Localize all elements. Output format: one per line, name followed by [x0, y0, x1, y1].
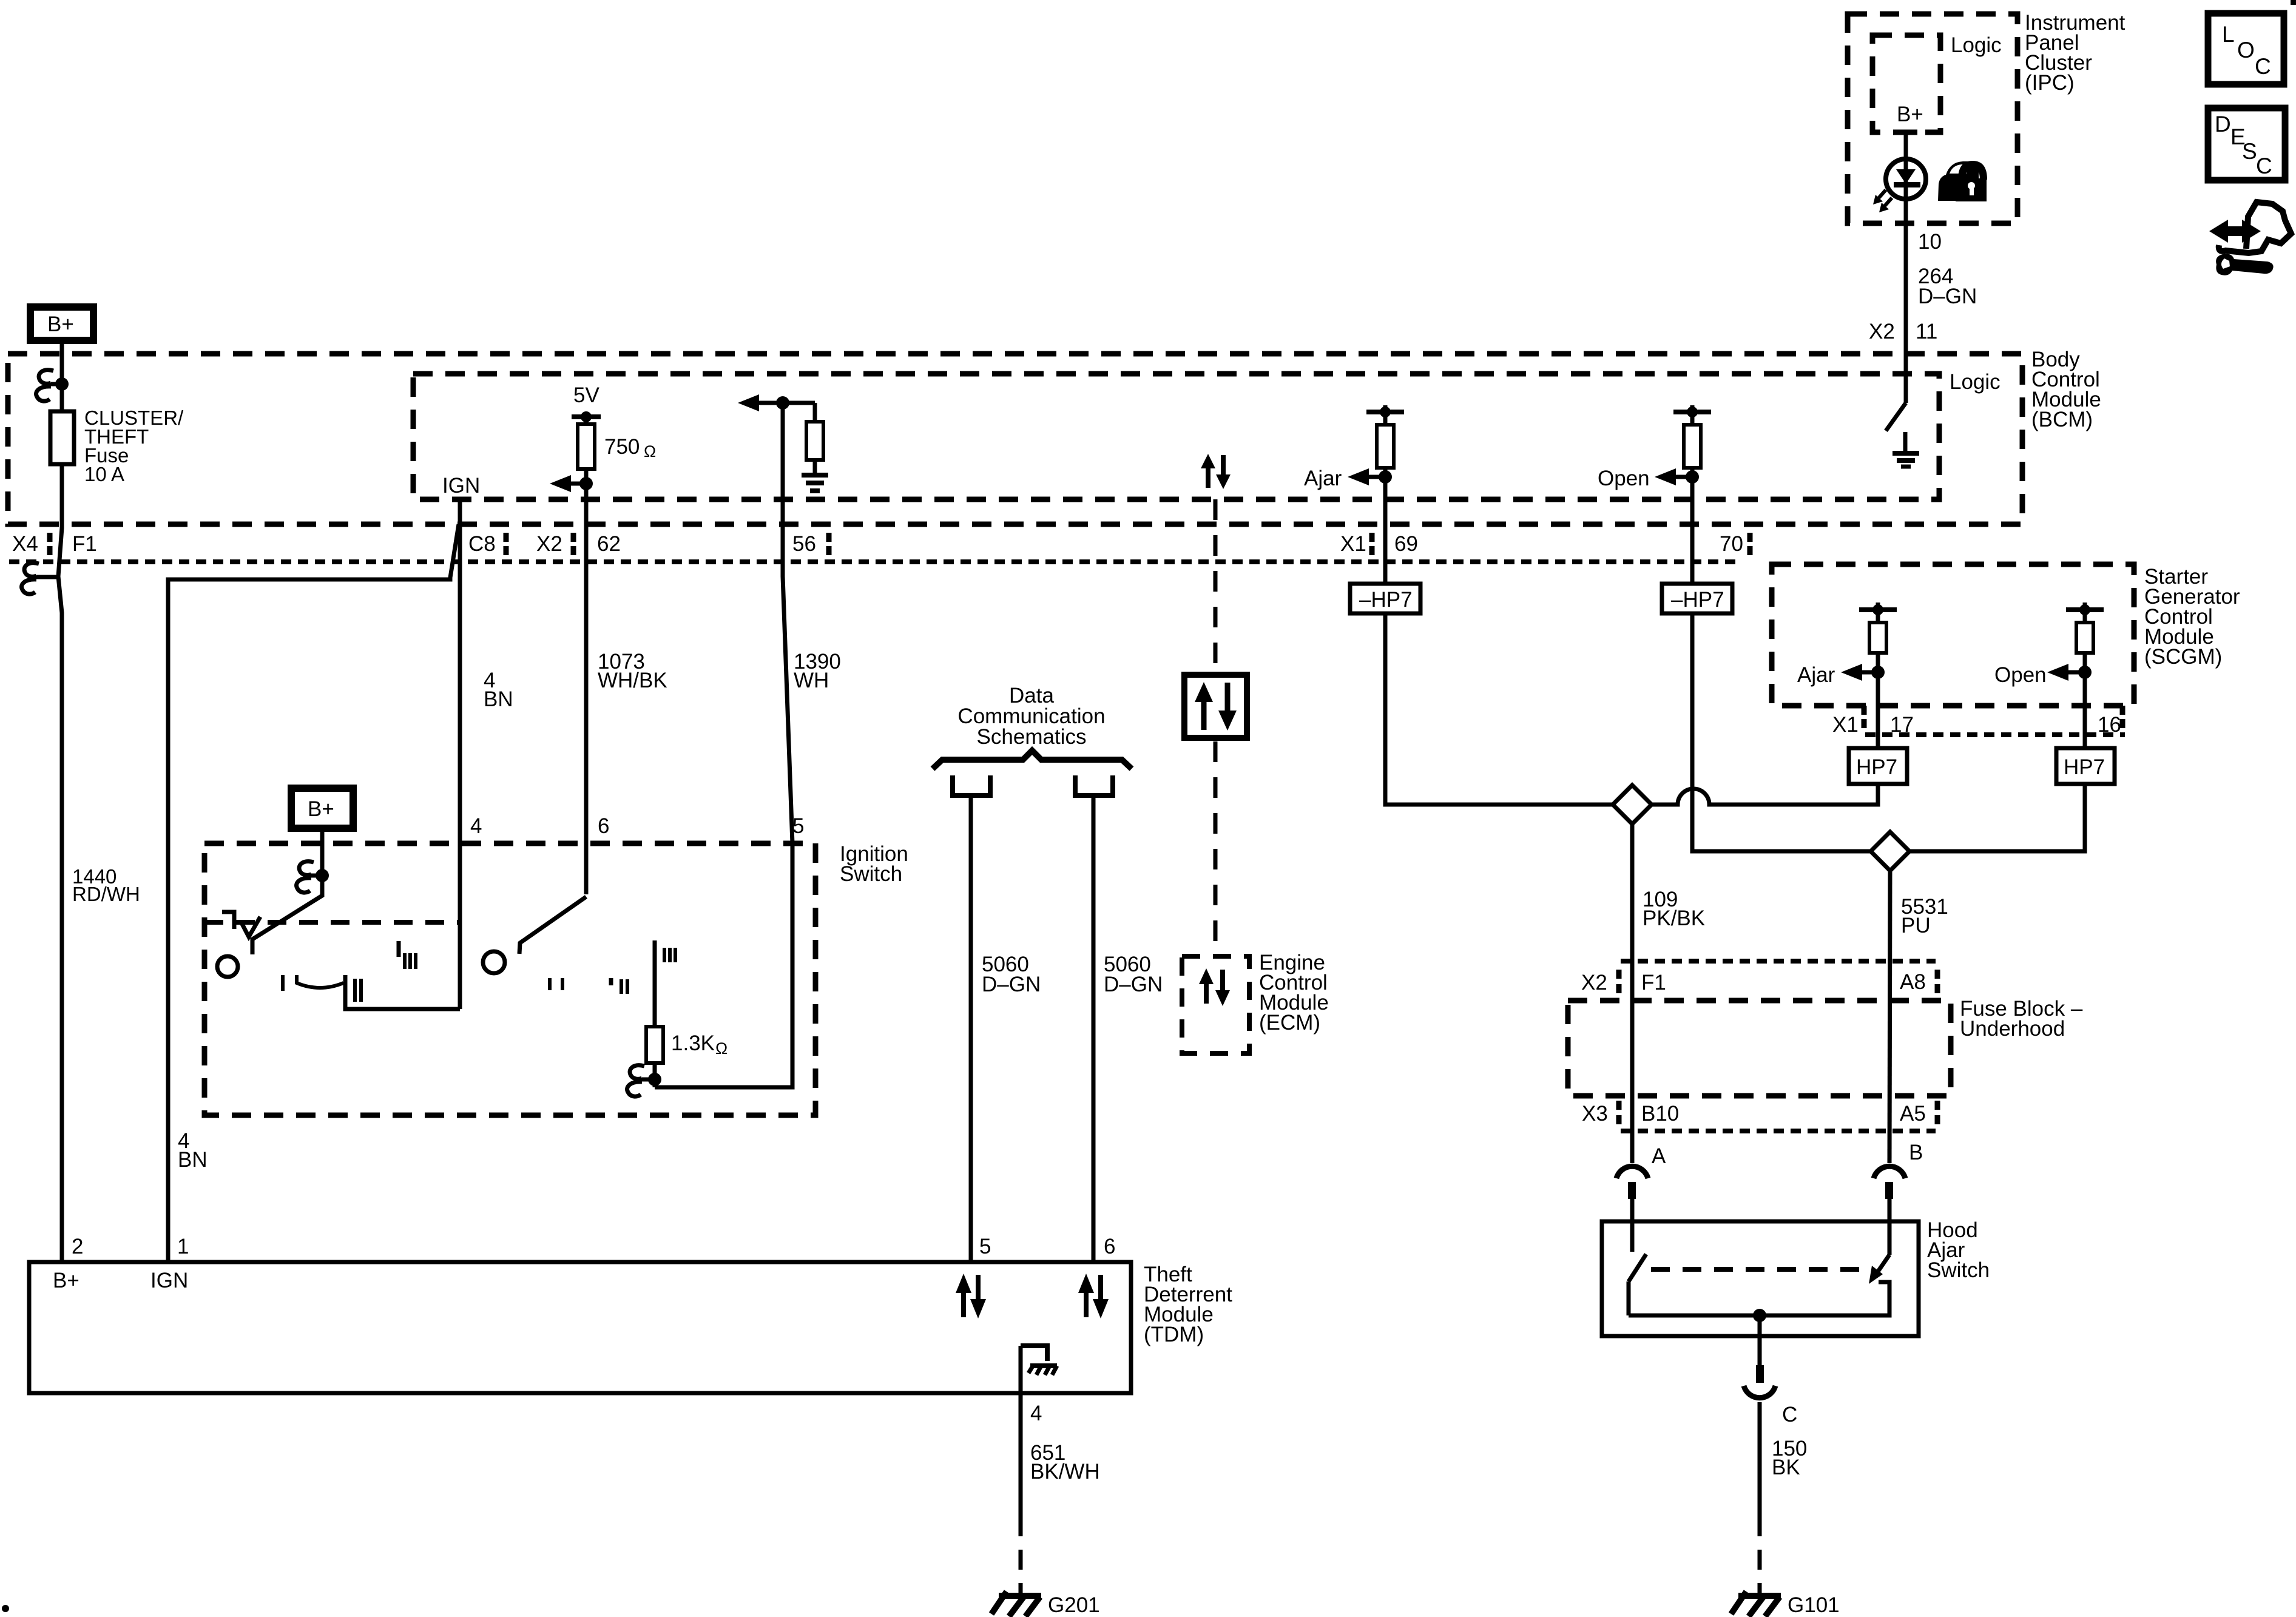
label F1 (fuse block): [1641, 971, 1666, 994]
splice package HP7 (16): [2056, 748, 2115, 784]
power symbol B+ (battery feed, top left): [27, 303, 97, 344]
svg-text:(BCM): (BCM): [2031, 408, 2093, 431]
security icon (car with lock): [1938, 161, 1987, 201]
Ignition Switch dashed box: [204, 843, 815, 1115]
label Ajar (BCM): [1304, 467, 1342, 490]
svg-text:O: O: [2237, 38, 2255, 62]
switch wiper blade (right section): [519, 897, 586, 954]
svg-text:–HP7: –HP7: [1359, 588, 1413, 612]
svg-text:C: C: [2256, 154, 2272, 178]
label Ajar (SCGM): [1797, 663, 1835, 687]
label X2 (BCM top): [1869, 320, 1895, 343]
hood switch blade (ajar contact): [1629, 1254, 1646, 1315]
resistor pull-down (BCM 56): [806, 403, 823, 475]
junction dot 62 node: [579, 477, 593, 490]
label 5531 PU: [1901, 895, 1948, 937]
label B10 (fuse block): [1641, 1102, 1679, 1126]
BCM inner Logic dashed box: [413, 374, 1939, 499]
svg-text:X2: X2: [536, 532, 562, 556]
svg-text:B+: B+: [53, 1269, 79, 1292]
wire B+ to wiper: [320, 832, 325, 881]
page mark (top right): [2291, 0, 2296, 5]
label B+ (IPC internal): [1897, 103, 1923, 126]
ACC contact symbol: [222, 912, 260, 937]
wire pin4 to contact II: [345, 975, 460, 1009]
svg-text:6: 6: [598, 814, 609, 838]
svg-text:B: B: [1909, 1141, 1923, 1164]
fuse block connector row X3/B10-A5 dashed line: [1621, 1129, 1936, 1133]
svg-text:HP7: HP7: [2064, 755, 2105, 779]
BCM bottom connector dashed line: [9, 559, 1737, 564]
svg-text:2: 2: [72, 1235, 83, 1258]
resistor pull-up (BCM hood open input): [1673, 405, 1711, 613]
clip symbol at wiper feed: [297, 862, 322, 893]
svg-text:IGN: IGN: [442, 474, 480, 498]
contact marks II (right): [611, 978, 627, 994]
svg-text:IGN: IGN: [150, 1269, 188, 1292]
fuse block connector row X2/F1-A8 dashed line: [1621, 959, 1936, 964]
contact circle (OFF, left): [217, 956, 238, 977]
brace (data communication): [933, 751, 1132, 769]
serial data arrows (BCM logic): [1201, 454, 1231, 489]
label G101: [1788, 1593, 1840, 1617]
svg-text:WH/BK: WH/BK: [598, 669, 667, 692]
label 264 D-GN: [1918, 265, 1977, 308]
svg-text:BN: BN: [484, 687, 513, 711]
label G201: [1048, 1593, 1100, 1617]
serial data arrows (ECM): [1199, 968, 1230, 1006]
logic switch (BCM security output): [1886, 403, 1906, 431]
signal arrow Open (SCGM): [2047, 664, 2085, 681]
wire 5531 PU: [1889, 871, 1890, 1163]
pin label 11 (BCM): [1916, 320, 1937, 343]
svg-text:X2: X2: [1869, 320, 1895, 343]
label IGN (TDM pin): [150, 1269, 188, 1292]
splice package -HP7 (69): [1350, 584, 1420, 613]
svg-text:F1: F1: [72, 532, 97, 556]
wire 264 D-GN (IPC pin 10 to BCM pin 11): [1904, 199, 1908, 403]
svg-text:56: 56: [792, 532, 816, 556]
connector tick 56: [826, 533, 832, 555]
LOC legend box: [2208, 13, 2284, 84]
svg-text:D–GN: D–GN: [982, 973, 1041, 996]
label 5060 D-GN (left): [982, 953, 1041, 996]
resistor 750 ohm (BCM pull-up): [578, 417, 595, 484]
svg-text:RD/WH: RD/WH: [72, 883, 140, 905]
off-page connector bracket (TDM pin 6): [1073, 775, 1115, 795]
ground G101: [1731, 1592, 1781, 1616]
label 62: [597, 532, 621, 556]
svg-text:1.3K: 1.3K: [671, 1031, 715, 1055]
svg-text:5: 5: [792, 814, 804, 838]
svg-text:X3: X3: [1582, 1102, 1608, 1126]
label C (connector): [1782, 1403, 1797, 1426]
svg-text:PU: PU: [1901, 914, 1931, 937]
inline connector A: [1616, 1166, 1648, 1252]
off-page connector bracket (TDM pin 5): [950, 775, 993, 795]
dashed wire to G201: [1019, 1516, 1023, 1593]
junction dot at fuse top: [55, 377, 69, 391]
pin label 5 (TDM): [979, 1235, 991, 1258]
svg-text:A: A: [1652, 1144, 1666, 1168]
pin label 4 (ignition switch): [470, 814, 482, 838]
label C8: [468, 532, 496, 556]
svg-text:5: 5: [979, 1235, 991, 1258]
svg-text:PK/BK: PK/BK: [1643, 906, 1705, 930]
svg-text:HP7: HP7: [1856, 755, 1897, 779]
splice diamond (5531 junction): [1871, 832, 1909, 871]
serial data arrows (TDM pin 6): [1078, 1274, 1109, 1318]
junction dot 56 node: [776, 396, 789, 410]
label Starter Generator Control Module (SCGM): [2144, 565, 2240, 669]
svg-text:Ajar: Ajar: [1304, 467, 1342, 490]
connector tick X1/17 (SCGM): [1862, 706, 1867, 728]
contact marks II (left): [355, 979, 361, 1002]
svg-text:1: 1: [177, 1235, 189, 1258]
value label 750 ohm: [604, 435, 656, 461]
svg-text:X1: X1: [1832, 713, 1859, 737]
svg-text:D–GN: D–GN: [1918, 285, 1977, 308]
ground symbol (BCM 56 pull-down): [802, 475, 828, 491]
label Hood Ajar Switch: [1927, 1218, 1990, 1282]
pin label 1 (TDM): [177, 1235, 189, 1258]
label 150 BK: [1772, 1437, 1807, 1479]
chassis ground symbol (TDM internal): [1028, 1365, 1057, 1375]
svg-text:X1: X1: [1340, 532, 1366, 556]
wire left run to HP7 with hop over: [1652, 784, 1878, 805]
connector tick 70: [1747, 533, 1753, 555]
connector tick 16 (SCGM): [2120, 706, 2125, 728]
label Theft Deterrent Module (TDM): [1144, 1263, 1232, 1346]
label X2 (BCM): [536, 532, 562, 556]
wire 5060 D-GN (right, to TDM pin 6): [1092, 795, 1096, 1262]
connector tick X2/62: [571, 533, 576, 555]
svg-text:BK/WH: BK/WH: [1030, 1460, 1100, 1484]
svg-text:C: C: [2255, 54, 2271, 79]
contact III wire (right): [653, 940, 657, 1027]
resistor pull-up (BCM hood ajar input): [1366, 405, 1404, 613]
label IGN (BCM pin): [442, 474, 480, 498]
svg-text:B+: B+: [47, 312, 74, 336]
svg-text:G101: G101: [1788, 1593, 1840, 1617]
signal arrow at 56 node: [738, 394, 815, 411]
wire 1440 RD/WH to TDM pin 2: [58, 576, 62, 1262]
svg-text:D–GN: D–GN: [1104, 973, 1163, 996]
svg-text:6: 6: [1104, 1235, 1115, 1258]
resistor 1.3K ohm (ignition switch): [646, 1027, 663, 1087]
label B (connector): [1909, 1141, 1923, 1164]
svg-text:A8: A8: [1900, 970, 1926, 994]
label X1 (SCGM): [1832, 713, 1859, 737]
signal arrow Ajar (BCM): [1348, 468, 1385, 485]
resistor pull-up (SCGM ajar input): [1859, 603, 1897, 748]
svg-text:62: 62: [597, 532, 621, 556]
clip symbol at fuse feed: [36, 370, 62, 401]
wire branch IGN to TDM (slant): [168, 524, 459, 1262]
svg-text:D: D: [2215, 112, 2231, 137]
svg-text:11: 11: [1916, 320, 1937, 343]
Theft Deterrent Module box: [29, 1262, 1131, 1393]
Hood Ajar Switch box: [1602, 1221, 1919, 1336]
svg-text:A5: A5: [1900, 1102, 1926, 1126]
serial data bus symbol box: [1184, 675, 1247, 738]
splice package HP7 (17): [1849, 748, 1907, 784]
mechanical link dashes (ignition): [204, 920, 458, 925]
wire 1.3K to pin 5: [655, 843, 792, 1087]
resistor pull-up (SCGM open input): [2066, 603, 2104, 748]
svg-text:C8: C8: [468, 532, 496, 556]
label A (connector): [1652, 1144, 1666, 1168]
pin label 6 (TDM): [1104, 1235, 1115, 1258]
label 16 (SCGM): [2098, 713, 2121, 737]
label A5 (fuse block): [1900, 1102, 1926, 1126]
wiper path arc (left): [297, 975, 343, 988]
connector tick A5 (fuse block): [1935, 1101, 1940, 1124]
connector tick C8: [504, 533, 509, 555]
svg-text:C: C: [1782, 1403, 1797, 1426]
junction dot (BCM ajar node): [1379, 470, 1392, 484]
svg-text:(ECM): (ECM): [1259, 1011, 1320, 1035]
connector tick X4/F1: [47, 533, 53, 555]
security indicator LED: [1873, 159, 1926, 212]
svg-text:(TDM): (TDM): [1144, 1323, 1204, 1346]
svg-text:X4: X4: [12, 532, 38, 556]
svg-text:F1: F1: [1641, 971, 1666, 994]
label 1390 WH: [794, 650, 841, 692]
label 1073 WH/BK: [598, 650, 667, 692]
svg-text:Ω: Ω: [715, 1039, 728, 1058]
svg-text:10: 10: [1918, 230, 1942, 254]
svg-text:Ajar: Ajar: [1797, 663, 1835, 687]
label 4 BN (lower, at TDM): [178, 1129, 208, 1172]
svg-text:G201: G201: [1048, 1593, 1100, 1617]
value label 1.3K ohm: [671, 1031, 728, 1058]
svg-text:S: S: [2242, 139, 2257, 164]
svg-text:Switch: Switch: [840, 862, 902, 886]
label X3 (fuse block): [1582, 1102, 1608, 1126]
5V supply bar (BCM): [572, 383, 601, 422]
SCGM connector dashed line: [1865, 732, 2125, 737]
svg-text:Underhood: Underhood: [1960, 1017, 2065, 1041]
inline connector C: [1744, 1365, 1775, 1398]
wire B+ to fuse: [60, 344, 64, 411]
wire B+ to indicator LED: [1904, 132, 1908, 163]
wire 5060 D-GN (left, to TDM pin 5): [969, 795, 973, 1262]
svg-text:Ω: Ω: [644, 442, 656, 461]
label 651 BK/WH: [1030, 1441, 1100, 1484]
fuse CLUSTER/THEFT 10 A: [50, 407, 184, 485]
svg-text:10 A: 10 A: [84, 463, 124, 485]
svg-text:B10: B10: [1641, 1102, 1679, 1126]
wire 4 BN from BCM IGN to ignition switch pin 4: [458, 498, 462, 1009]
label Data Communication Schematics: [957, 684, 1105, 749]
Fuse Block - Underhood dashed box: [1568, 1001, 1951, 1096]
svg-text:Schematics: Schematics: [977, 725, 1087, 749]
wire 1073 WH/BK (pin 62 to ignition switch pin 6): [584, 484, 589, 894]
svg-text:Open: Open: [1598, 467, 1650, 490]
svg-text:B+: B+: [308, 797, 334, 821]
svg-text:(SCGM): (SCGM): [2144, 645, 2222, 669]
svg-text:B+: B+: [1897, 103, 1923, 126]
contact marks I (right): [550, 978, 562, 990]
clip symbol below X4/F1: [22, 563, 58, 594]
label Ignition Switch: [840, 842, 908, 886]
wire fuse to connector X4/F1: [58, 464, 62, 576]
IPC inner Logic dashed box: [1872, 35, 1940, 132]
DESC legend box: [2208, 108, 2285, 180]
svg-text:–HP7: –HP7: [1671, 588, 1724, 612]
label 56: [792, 532, 816, 556]
svg-text:Open: Open: [1994, 663, 2047, 687]
junction dot (SCGM ajar): [1871, 666, 1885, 679]
svg-text:L: L: [2222, 22, 2235, 47]
svg-text:69: 69: [1394, 532, 1418, 556]
label Instrument Panel Cluster (IPC): [2025, 11, 2125, 95]
svg-text:16: 16: [2098, 713, 2121, 737]
serial data dashed wire (BCM to data bus box): [1214, 499, 1218, 671]
dashed wire to G101: [1758, 1516, 1762, 1593]
clip symbol below 1.3K: [627, 1065, 655, 1096]
junction dot (SCGM open): [2078, 666, 2092, 679]
ground symbol (BCM logic switch): [1893, 432, 1919, 467]
ground G201: [991, 1592, 1041, 1616]
diagnostic hand/arrow/wrench icon: [2209, 202, 2291, 275]
contact circle (OFF, right): [483, 951, 505, 973]
contact marks III (right): [664, 948, 675, 962]
svg-text:17: 17: [1890, 713, 1914, 737]
connector tick X1/69: [1369, 533, 1375, 555]
internal ground hook (TDM): [1021, 1346, 1047, 1516]
pin label 4 (TDM bottom): [1030, 1402, 1042, 1425]
connector tick X3/B10 (fuse block): [1616, 1101, 1622, 1124]
svg-text:BN: BN: [178, 1148, 208, 1172]
label Body Control Module (BCM): [2031, 348, 2101, 431]
label 109 PK/BK: [1643, 888, 1705, 930]
pin label 6 (ignition switch): [598, 814, 609, 838]
svg-text:Logic: Logic: [1950, 370, 2001, 394]
mechanical link dashes (hood switch): [1651, 1267, 1872, 1272]
wire 109 PK/BK: [1630, 824, 1635, 1163]
label Logic (IPC): [1951, 33, 2002, 57]
BCM outer dashed box: [8, 354, 2022, 524]
signal arrow Open (BCM): [1655, 468, 1692, 485]
wire 651 BK/WH: [1019, 1393, 1023, 1516]
contact marks I (left): [281, 975, 285, 991]
Starter Generator Control Module dashed box: [1772, 564, 2134, 706]
label Engine Control Module (ECM): [1259, 951, 1329, 1035]
signal arrow at 62 sense node: [550, 475, 586, 492]
label F1: [72, 532, 97, 556]
label Logic (BCM): [1950, 370, 2001, 394]
svg-text:70: 70: [1720, 532, 1743, 556]
wire 150 BK: [1758, 1402, 1762, 1516]
connector tick X2/F1 (fuse block): [1616, 970, 1622, 993]
wire -HP7 to right run with hop: [1692, 613, 1871, 851]
inline connector B: [1874, 1166, 1905, 1255]
junction dot (BCM open node): [1686, 470, 1699, 484]
pin label 10 (IPC): [1918, 230, 1942, 254]
hood switch common rail: [1629, 1282, 1889, 1315]
label B+ (TDM pin): [53, 1269, 79, 1292]
label 4 BN (upper): [484, 669, 513, 711]
power symbol B+ (ignition switch): [288, 785, 357, 832]
label 1440 RD/WH: [72, 865, 140, 905]
label X4: [12, 532, 38, 556]
svg-text:5V: 5V: [573, 383, 599, 407]
svg-text:Logic: Logic: [1951, 33, 2002, 57]
label 69: [1394, 532, 1418, 556]
svg-text:750: 750: [604, 435, 640, 459]
svg-text:Switch: Switch: [1927, 1258, 1990, 1282]
connector tick A8 (fuse block): [1935, 970, 1940, 993]
svg-text:(IPC): (IPC): [2025, 71, 2075, 95]
signal arrow Ajar (SCGM): [1841, 664, 1878, 681]
pin label 2 (TDM): [72, 1235, 83, 1258]
switch wiper blade (main): [252, 876, 322, 954]
svg-text:WH: WH: [794, 669, 829, 692]
label Fuse Block - Underhood: [1960, 997, 2083, 1041]
wire 1390 WH (pin 56 to ignition switch pin 5): [783, 403, 792, 843]
svg-text:BK: BK: [1772, 1456, 1800, 1479]
label Open (SCGM): [1994, 663, 2047, 687]
Engine Control Module (ECM) dashed box: [1182, 956, 1249, 1053]
label A8 (fuse block): [1900, 970, 1926, 994]
splice package -HP7 (70): [1662, 584, 1732, 613]
label 17 (SCGM): [1890, 713, 1914, 737]
contact marks III (left): [399, 941, 416, 969]
junction dot (hood switch common): [1753, 1309, 1766, 1322]
label 5060 D-GN (right): [1104, 953, 1163, 996]
wire -HP7 to splice diamond (left): [1385, 613, 1613, 805]
wire common to connector C: [1758, 1315, 1762, 1365]
serial data arrows (TDM pin 5): [956, 1274, 986, 1318]
wire right run to HP7: [1909, 784, 2085, 851]
B+ bar (IPC): [1894, 130, 1917, 135]
label X1 (BCM): [1340, 532, 1366, 556]
pin label 5 (ignition switch): [792, 814, 804, 838]
serial data dashed wire (bus box to ECM): [1214, 741, 1218, 956]
junction dot below 1.3K: [648, 1073, 661, 1086]
page mark (bottom left): [2, 1605, 9, 1612]
splice diamond (109 junction): [1613, 785, 1652, 824]
svg-text:4: 4: [470, 814, 482, 838]
hood switch blade (open contact): [1869, 1255, 1889, 1284]
svg-text:X2: X2: [1581, 971, 1607, 994]
svg-text:4: 4: [1030, 1402, 1042, 1425]
Instrument Panel Cluster outer dashed box: [1848, 14, 2017, 223]
label X2 (fuse block): [1581, 971, 1607, 994]
junction dot (wiper feed): [316, 869, 329, 882]
label Open (BCM): [1598, 467, 1650, 490]
label 70: [1720, 532, 1743, 556]
